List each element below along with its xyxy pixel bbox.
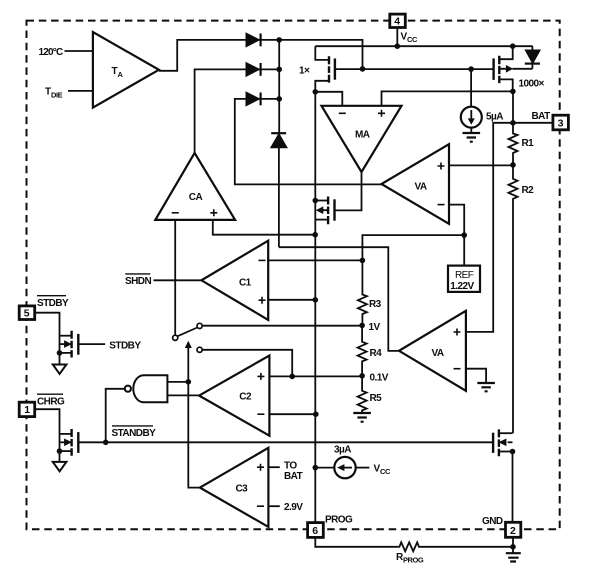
svg-text:DIE: DIE [51,91,63,100]
svg-text:STANDBY: STANDBY [112,428,157,439]
pin 2 box [506,522,521,537]
switch S1 lever [178,328,197,337]
label VA2 minus [454,368,461,370]
op-amp TA [93,32,159,108]
node 1x drain [313,89,319,95]
ground G4 [506,553,521,561]
wire CA output to D2 [195,69,247,152]
switch control arrow [185,341,192,382]
pin 3 box [553,115,569,130]
svg-text:SHDN: SHDN [125,276,151,287]
label 120°C [39,47,63,58]
wire S2 to C2 plus [202,350,292,377]
wire C2 minus input [269,413,315,415]
resistor R3 [358,294,367,326]
svg-text:R4: R4 [370,348,383,359]
label VA2 [432,348,444,359]
wire pin2 to GND node [512,537,514,553]
label MA minus [339,112,346,114]
wire VCC rail [315,45,532,47]
label MA [355,130,370,141]
wire VA1 output to D3 [235,99,382,184]
node REF junction [461,232,467,238]
label R4 [370,348,383,359]
diode D1 [246,34,279,47]
label TDIE [45,87,63,100]
label R5 [370,393,383,404]
label VCC 3uA [374,464,391,477]
node C1- R3 junction [360,258,366,264]
svg-text:MA: MA [355,130,370,141]
svg-text:CHRG: CHRG [37,396,65,407]
diode D4 [271,133,286,247]
label C1 [239,277,252,288]
svg-text:R2: R2 [522,185,535,196]
diode D3 [246,93,279,106]
wire REF node to R3 top [362,235,464,293]
label C2 minus [257,413,264,415]
op-amp CA [155,153,235,220]
wire BAT to VA2 plus input [466,123,513,332]
svg-text:6: 6 [312,525,318,537]
label 3uA [334,445,351,456]
node GND junction [510,544,516,550]
wire 1000x drain to BAT node [512,91,514,131]
svg-text:R5: R5 [370,393,383,404]
label 5uA [486,112,503,123]
label STANDBY [112,428,157,439]
wire C3 minus stub [268,505,279,507]
svg-text:TO: TO [284,460,297,471]
wire D1 row to gate-rail corner [279,40,362,69]
op-amp C1 [201,241,268,320]
wire C2 plus input [269,375,362,377]
label C3 plus [257,464,264,471]
wire pin6 to RPROG [315,537,397,547]
transistor M5 [493,429,512,456]
wire C1 plus input [268,299,315,301]
node 5uA tap on gate rail [468,66,474,72]
current source 5uA [461,69,482,133]
node C2- junction [313,411,319,417]
svg-text:STDBY: STDBY [37,298,69,309]
label VA1 plus [438,163,445,170]
svg-text:R3: R3 [369,299,382,310]
svg-text:0.1V: 0.1V [370,372,389,383]
wire pin4 to VCC rail [396,28,398,47]
label 2.9V [284,502,303,513]
label pin 1 [24,404,30,416]
label C3 [236,483,249,494]
svg-text:CA: CA [189,192,203,203]
node Q2 source [57,448,63,454]
node 0.1V [359,373,365,379]
wire SHDN to C1 output [154,279,202,281]
node pin4 VCC junction [395,43,401,49]
diode D5 body diode [525,46,540,69]
svg-text:4: 4 [394,16,400,28]
wire NAND output to STANDBY node [106,389,125,443]
label VA1 minus [438,204,445,206]
label VA1 [415,182,427,193]
svg-text:1.22V: 1.22V [450,281,474,292]
svg-text:CC: CC [380,467,391,476]
diode D2 [246,63,279,76]
label C2 [239,392,252,403]
pin 1 box [19,402,35,416]
svg-text:VA: VA [415,182,427,193]
label STDBY pin [37,298,69,309]
op-amp VA2 [399,311,466,391]
node 1000x source VCC junction [510,43,516,49]
label REF 1.22V [450,270,474,292]
transistor 1x PMOS [315,46,362,92]
wire TA output to D1 [159,40,247,71]
wire C3 plus stub [268,466,279,468]
node C2+ switch junction [289,374,295,380]
wire C1 minus input [268,259,362,261]
wire diode bus vertical [278,40,280,133]
resistor R4 [358,325,367,375]
svg-text:3µA: 3µA [334,445,351,456]
pin 4 box [390,14,406,27]
node M3 top stub [313,198,319,204]
label 1000x [519,79,545,90]
wire 1x drain to MA inverting input [315,92,342,106]
label CA plus [210,209,217,216]
svg-text:3: 3 [558,118,564,130]
wire M5 source to pin2 [512,452,514,523]
transistor 1000x PMOS [494,46,533,91]
label R2 [522,185,535,196]
wire VA1 plus input [449,164,513,166]
label CHRG pin [37,396,65,407]
svg-text:A: A [118,70,124,79]
node D3-bus junction [276,96,282,102]
wire 120°C input [65,50,93,52]
label 1x [299,66,310,77]
node NAND output junction [103,440,109,446]
op-amp C2 [199,356,269,436]
svg-text:BAT: BAT [532,111,551,122]
label VA2 plus [454,329,461,336]
gate U1 NAND [125,375,168,402]
label pin 3 [558,118,564,130]
op-amp C3 [200,448,269,527]
label SHDN [125,276,151,287]
wire TDIE input [68,90,93,92]
ground G3 [477,383,495,391]
node D1-bus junction [276,37,282,43]
label C2 plus [257,373,264,380]
node C1+ junction [313,297,319,303]
IC boundary dashed border [27,21,560,530]
label PROG [325,514,353,525]
wire NAND input1 [167,381,188,383]
transistor Q1 STDBY [60,331,106,358]
transistor Q2 CHRG [60,429,494,456]
resistor R2 [509,165,518,433]
pin 6 box [308,523,324,538]
switch S2 contact [197,347,202,352]
node R1 R2 junction [510,162,516,168]
node NAND in1 junction [186,379,192,385]
svg-text:1×: 1× [299,66,310,77]
svg-text:1V: 1V [369,322,381,333]
wire NAND input2 to C2 output [167,394,199,396]
wire gate rail to 1000x [363,68,494,70]
node gate rail junction [360,66,366,72]
label pin 6 [312,525,318,537]
wire bus to VA2 output [279,247,399,351]
svg-text:120°C: 120°C [39,47,63,58]
wire VA2 minus to ground [466,369,486,383]
node BAT [510,120,516,126]
svg-text:5µA: 5µA [486,112,503,123]
wire sense chain lower vertical [314,235,316,523]
svg-text:1: 1 [24,404,30,416]
op-amp MA [322,106,402,172]
resistor R5 [358,376,367,413]
label pin 4 [394,16,400,28]
svg-text:PROG: PROG [403,556,424,565]
svg-text:REF: REF [455,270,474,281]
svg-text:STDBY: STDBY [109,341,141,352]
label VCC pin4 [401,32,418,45]
svg-text:VA: VA [432,348,444,359]
wire BAT to pin 3 [513,122,553,124]
wire C3 output to NAND in1 [188,382,200,488]
svg-text:C3: C3 [236,483,249,494]
svg-text:2: 2 [510,525,516,537]
wire VA1 minus to REF node [449,205,464,266]
svg-text:C2: C2 [239,392,252,403]
wire S1 to 1V node [202,325,362,327]
label RPROG [396,552,424,565]
svg-text:BAT: BAT [284,471,303,482]
pin 5 box [19,306,35,320]
label TA [112,66,124,79]
svg-text:1000×: 1000× [519,79,545,90]
wire MA non-inverting input [382,91,513,105]
REF box [448,266,480,292]
switch S1 contact [173,335,178,340]
svg-text:GND: GND [482,516,503,527]
label R3 [369,299,382,310]
wire CA non-inverting input [213,220,315,235]
label STDBY gate [109,341,141,352]
wire MA output to M3 gate [335,172,362,210]
open-drain symbol pin5 [53,365,67,374]
wire pin5 to Q1 drain [35,313,60,365]
svg-text:C1: C1 [239,277,252,288]
label pin 2 [510,525,516,537]
wire sense chain vertical [314,92,316,235]
op-amp VA1 [381,144,449,224]
wire CA inverting input to switch S1 [174,220,176,335]
svg-text:R1: R1 [522,138,535,149]
svg-text:5: 5 [24,308,30,320]
node Q1 source [57,350,63,356]
label CA minus [172,212,179,214]
label C1 minus [259,259,266,261]
label GND [482,516,503,527]
label C3 minus [257,505,264,507]
node 3uA junction [313,465,319,471]
node 1000x drain junction [510,89,516,95]
resistor RPROG [397,542,513,551]
label TO BAT [284,460,303,482]
resistor R1 [509,132,518,165]
ground G1 under 5uA [463,133,481,142]
label CA [189,192,203,203]
open-drain symbol pin1 [53,462,67,471]
transistor M3 [315,197,334,225]
node 1V [359,323,365,329]
node M5 source [510,449,516,455]
label 0.1V [370,372,389,383]
label MA plus [378,110,385,117]
switch S1 upper contact [197,323,202,328]
svg-text:CC: CC [407,35,418,44]
label pin 5 [24,308,30,320]
node D2-bus junction [276,67,282,73]
ground G2 under R5 [353,413,371,422]
label BAT [532,111,551,122]
label C1 plus [259,297,266,304]
label 1V [369,322,381,333]
wire pin1 to Q2 drain [35,409,60,462]
svg-text:2.9V: 2.9V [284,502,303,513]
svg-text:PROG: PROG [325,514,353,525]
current source 3uA [315,457,369,478]
label R1 [522,138,535,149]
node CA+ junction [312,232,318,238]
